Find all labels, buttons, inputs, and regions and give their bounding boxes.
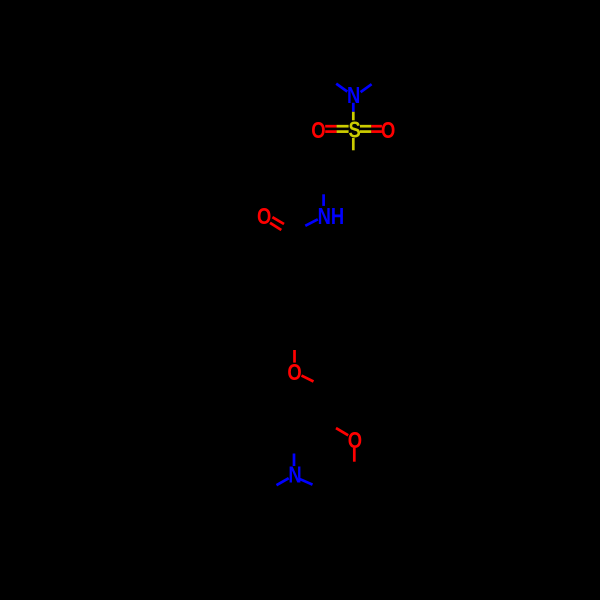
svg-text:NH: NH	[318, 204, 345, 229]
bond N-S lower half (yellow)	[352, 112, 355, 121]
bond S-CH2 yellow half below S	[352, 138, 355, 150]
svg-text:O: O	[311, 118, 325, 143]
S=O right double bond lower line yellow half	[360, 130, 371, 133]
bond N(ring)-C blue half down-right	[299, 479, 312, 485]
bond C2-O(ring) red half up-left	[336, 428, 348, 435]
C=O double bond lower line red half	[270, 223, 281, 230]
svg-text:S: S	[348, 118, 360, 143]
bond O(phenoxy)-CH2 red half down-right	[302, 376, 314, 382]
bond N(pyrrolidine)-C up-right half	[361, 84, 372, 92]
svg-text:N: N	[288, 463, 301, 488]
svg-text:O: O	[257, 204, 271, 229]
bond CH2-NH blue half above NH	[322, 194, 325, 206]
bond NH-C(=O) blue half down-left	[305, 219, 318, 226]
svg-text:N: N	[347, 83, 360, 108]
S=O right double bond upper line red half	[371, 125, 382, 128]
bond N(ring)-C blue half down-left	[277, 478, 289, 485]
bond N(pyrrolidine)-C up-left half	[336, 84, 347, 92]
svg-text:O: O	[348, 428, 362, 453]
bond N-S upper half (blue)	[352, 103, 355, 112]
S=O right double bond lower line red half	[371, 130, 382, 133]
svg-text:O: O	[287, 360, 301, 385]
C=O double bond upper line red half	[272, 217, 284, 224]
bond Caryl-O(phenoxy) red half vertical	[293, 350, 296, 363]
S=O left double bond upper line yellow half	[337, 125, 349, 128]
bond O(ring)-C red half below	[353, 448, 356, 462]
S=O right double bond upper line yellow half	[360, 125, 371, 128]
S=O left double bond lower line red half	[325, 130, 336, 133]
bond C-N(ring) blue half above N	[293, 454, 296, 467]
svg-text:O: O	[381, 118, 395, 143]
S=O left double bond lower line yellow half	[337, 130, 349, 133]
S=O left double bond upper line red half	[325, 125, 336, 128]
